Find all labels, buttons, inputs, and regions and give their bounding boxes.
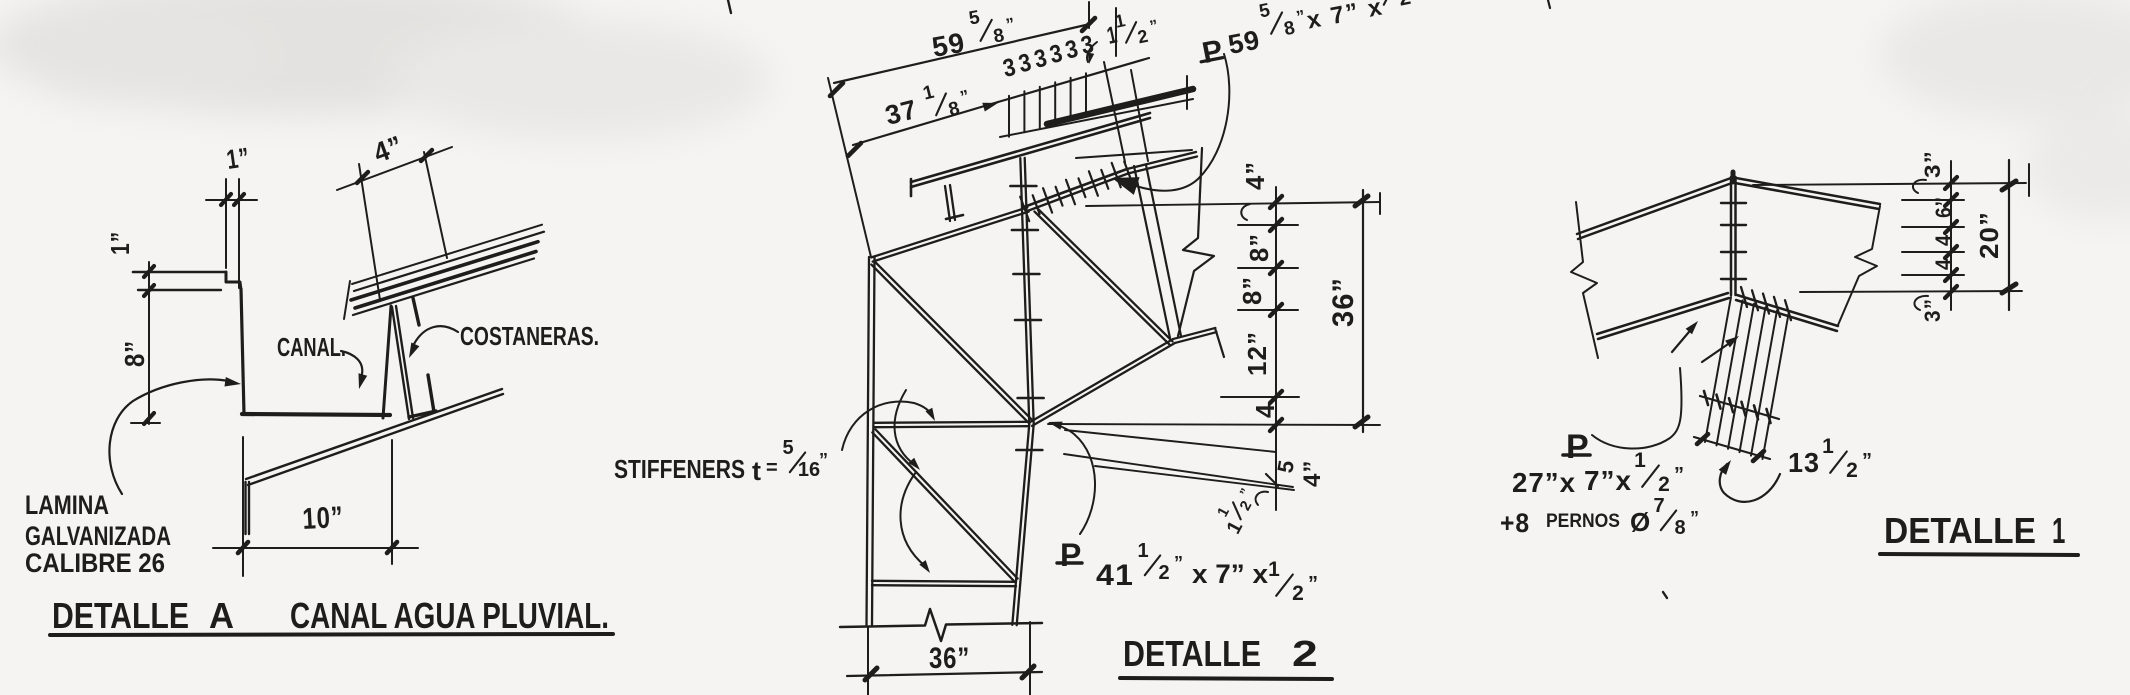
svg-text:8”: 8” (119, 340, 150, 367)
Detalle 2: rafter top flange thin line (1000, 99, 1193, 137)
Detalle A: lamina galvanizada diagonal sheet double line (246, 389, 502, 479)
svg-text:t: t (752, 456, 762, 486)
Detalle 1: apex splice plate double line (1730, 177, 1733, 295)
Detalle 2: splice bolt ticks (1020, 162, 1131, 222)
svg-text:1”: 1” (105, 231, 135, 255)
Detalle A: canal bottom (242, 414, 390, 415)
svg-text:36”: 36” (929, 642, 970, 675)
Detalle 1: apex splice bolt ticks (1721, 203, 1746, 279)
Detalle A: top 1 inch dim extension lines (225, 179, 227, 268)
svg-text:=: = (766, 457, 779, 479)
Detalle 2: leader arc from 41-1/2 callout to center member (1052, 423, 1095, 534)
Detalle 2: solid arrowhead pointing at splice (1112, 177, 1140, 195)
Detalle 1: double arrow leader to splice plate (1672, 326, 1694, 352)
Detalle 2: stiffener leader arc to mid strut (842, 402, 933, 450)
svg-text:1: 1 (2052, 510, 2066, 551)
svg-text:1”: 1” (225, 142, 252, 175)
svg-text:4: 4 (1931, 234, 1956, 246)
svg-text:4”: 4” (1240, 161, 1270, 190)
svg-text:A: A (209, 595, 234, 636)
small tick at top edge right (1548, 0, 1550, 8)
Detalle 1: bottom leader line to dim stack (1800, 291, 2022, 292)
Detalle A: costanera bottom flange (409, 411, 436, 417)
svg-text:”: ” (1674, 464, 1684, 486)
Detalle A: title underline (50, 634, 613, 635)
Detalle 1: bolt row cross tick line (1700, 396, 1779, 419)
Detalle 2: joint center member upper (web stiffener) (1020, 158, 1029, 424)
svg-text:2: 2 (1658, 473, 1670, 496)
Detalle 2: 37-1/8 dim line (853, 102, 998, 145)
Detalle 2: subdivision tick rows (1221, 225, 1299, 397)
svg-text:DETALLE: DETALLE (1123, 633, 1261, 674)
Detalle 2: six 3-inch spacing ticks (1009, 73, 1086, 137)
Detalle 2: rotated label 1 1/2 inch lower (1209, 481, 1263, 538)
svg-text:PERNOS: PERNOS (1546, 511, 1620, 532)
Detalle 2: small hook arrow at 1-1/2 (1087, 42, 1097, 62)
svg-text:8: 8 (1674, 517, 1685, 539)
Detalle A: 10 inch dim line with ticks (213, 547, 418, 549)
Detalle A: 4 inch dim line on roof slope (337, 147, 452, 190)
Detalle 2: lower panel diagonal (872, 433, 1014, 582)
svg-text:CANAL.: CANAL. (277, 332, 346, 362)
svg-text:COSTANERAS.: COSTANERAS. (460, 321, 599, 351)
svg-text:+8: +8 (1500, 508, 1530, 538)
Detalle 1: apex splice top blob (1731, 172, 1736, 182)
Detalle 2: seat flange lower edge line (1076, 150, 1192, 158)
Detalle 2: subdivision dim line vertical (1275, 187, 1277, 510)
svg-text:4”: 4” (1299, 460, 1326, 487)
Detalle 2: seat flange double line (T piece) (911, 113, 1150, 182)
Detalle 2: upper panel diagonal (871, 265, 1029, 424)
Detalle 2: 36 inch dim extension lines (867, 627, 869, 695)
svg-text:12”: 12” (1242, 331, 1272, 376)
Detalle 2: plate callout text 59 5/8 x 7 x 1/2 (1190, 0, 1431, 71)
svg-text:59: 59 (930, 27, 968, 63)
Detalle 2: rafter panel diagonal (1035, 212, 1170, 345)
svg-text:GALVANIZADA: GALVANIZADA (25, 521, 171, 551)
svg-text:8”: 8” (1237, 276, 1267, 305)
Detalle A: canal top lip upper line (133, 271, 226, 274)
Detalle 1: left beam top flange double line (1577, 178, 1731, 234)
Detalle 1: leader arc from PL callout (1592, 368, 1682, 449)
Detalle 2: rafter right cut line with break zigzag (1178, 148, 1214, 336)
Detalle 2: rafter bottom chord right stub and end tick (1175, 332, 1217, 343)
svg-text:7”x: 7”x (1584, 465, 1632, 496)
svg-text:2: 2 (1846, 459, 1858, 482)
Detalle 2: lower horizontal strut (872, 585, 1016, 586)
Detalle 2: joint center member lower (column right chord) (1012, 424, 1029, 625)
svg-text:DETALLE: DETALLE (1884, 510, 2036, 551)
svg-text:Ø: Ø (1630, 507, 1651, 537)
Detalle A: leader arrow from CANAL label (341, 351, 362, 374)
Detalle 2: spacing tick line (6 at 3 inch) (998, 58, 1149, 102)
svg-text:”: ” (1174, 553, 1183, 573)
Detalle 2: stiffener leader arc to upper diagonal (895, 390, 915, 465)
Detalle 2: web stub under seat flange (945, 186, 950, 221)
Detalle 2: labels 333333 (1000, 30, 1097, 83)
Detalle A: costanera web double line (392, 307, 409, 419)
svg-text:59: 59 (1226, 24, 1263, 60)
svg-text:2: 2 (1292, 582, 1304, 605)
svg-text:1: 1 (1822, 435, 1834, 458)
Detalle 1: tick blobs on subdivision line (1945, 177, 1957, 298)
Detalle 2: stiffener tick marks on center member (1010, 186, 1043, 450)
Detalle 1: curved arrow from 13-1/2 to bolt group (1720, 464, 1780, 502)
Detalle 2: 36 inch overall dim line right (1362, 190, 1364, 432)
Detalle 1: top leader line from apex to dim stack (1753, 183, 2026, 185)
svg-text:7: 7 (1653, 495, 1664, 517)
Detalle 2: column top chord to joint (873, 212, 1029, 262)
Detalle 2: stiffener leader arc to lower strut (900, 472, 925, 566)
svg-text:2: 2 (1158, 562, 1169, 584)
svg-text:”: ” (819, 450, 828, 470)
Detalle A: canal left wall (241, 289, 244, 414)
svg-text:”: ” (1690, 508, 1699, 528)
Detalle A: lamina left end vertical hem (244, 482, 246, 534)
svg-text:16: 16 (798, 459, 820, 481)
svg-text:4: 4 (1931, 258, 1956, 270)
svg-text:20”: 20” (1974, 211, 2004, 259)
svg-text:DETALLE: DETALLE (52, 595, 189, 636)
Detalle 2: small tick at top edge (728, 0, 731, 13)
Detalle 2: top plate right end extension (1186, 76, 1188, 109)
svg-text:3”: 3” (1920, 298, 1945, 322)
svg-text:10”: 10” (302, 501, 345, 536)
Detalle 2: extension line pair near 1-1/2 dim (1104, 62, 1125, 162)
Detalle 1: left beam bottom flange double line (1597, 293, 1728, 334)
Detalle 1: right beam bottom flange double line (1737, 295, 1838, 326)
scan shading smudge top-left (0, 0, 770, 140)
Detalle A: left dim ticks (144, 266, 154, 277)
svg-text:”: ” (1308, 573, 1318, 595)
Detalle 1: bolt hatch ticks on right bottom flange (1741, 287, 1791, 320)
svg-text:CANAL AGUA PLUVIAL.: CANAL AGUA PLUVIAL. (290, 595, 609, 636)
Detalle 2: 59-5/8 dim line with end ticks (834, 24, 1090, 83)
svg-text:1: 1 (1634, 449, 1646, 472)
Detalle 2: tick blobs on subdivision line (1270, 196, 1282, 431)
Detalle 1: bolt row lines below splice (1705, 297, 1789, 459)
Detalle 2: lower flange leader double line (1064, 454, 1293, 487)
Detalle 1: curl hook on bottom leader (1914, 296, 1928, 310)
svg-text:1: 1 (1137, 540, 1148, 562)
Detalle 2: leader arc from plate callout to splice (1136, 54, 1229, 191)
Detalle A: canal lip step (226, 272, 241, 290)
Detalle 2: top plate thick line (1047, 89, 1193, 124)
Detalle A: costanera top flange stub (413, 298, 419, 325)
Detalle 2: seat flange left end cap (910, 179, 913, 196)
svg-text:13: 13 (1788, 447, 1820, 478)
Detalle 2: rafter bottom chord (1032, 343, 1175, 426)
Detalle 2: column left chord double line (867, 257, 870, 625)
Detalle 2: title underline (1120, 678, 1332, 679)
Detalle 2: small tick and curl at lower labels (1266, 474, 1278, 486)
Detalle A: costanera bottom lip stub (428, 375, 434, 412)
Detalle 2: rafter end vertical member double line (1134, 166, 1170, 338)
Detalle 1: bolt ticks on cross line (1704, 391, 1771, 423)
svg-text:P: P (1060, 537, 1082, 573)
Detalle 1: 20 inch dim line (2008, 160, 2010, 310)
svg-text:5: 5 (782, 437, 793, 459)
svg-text:P: P (1566, 428, 1590, 466)
Detalle 2: curl hook near top 4 label (1241, 204, 1250, 220)
svg-text:CALIBRE 26: CALIBRE 26 (25, 548, 165, 578)
Detalle 1: subdivision tick rows (1902, 200, 1964, 275)
svg-text:6”: 6” (1931, 196, 1956, 218)
Detalle 1: title underline (1880, 554, 2078, 555)
Detalle 2: column bottom break line with zigzag (840, 609, 1042, 641)
Detalle A: canal lip lower extension line (138, 289, 221, 291)
Detalle A: canal right wall (383, 306, 391, 418)
svg-text:LAMINA: LAMINA (25, 490, 109, 520)
svg-text:2: 2 (1292, 633, 1319, 674)
Detalle A: left dim extension vertical line (148, 262, 150, 424)
scan shading smudge top-right (1880, 0, 2130, 220)
Detalle 2: left dim extension line (828, 78, 871, 257)
Detalle 1: curl hook on top leader (1913, 180, 1926, 193)
Detalle A: 10 inch dim extension lines (242, 437, 244, 576)
Detalle 2: mid horizontal strut (874, 426, 1029, 427)
Detalle 1: subdivision dim line (1950, 161, 1952, 310)
Detalle A: leader arrow from COSTANERAS label (414, 326, 458, 344)
svg-text:4: 4 (1250, 403, 1280, 418)
svg-text:3”: 3” (1920, 150, 1945, 178)
svg-text:”: ” (1862, 450, 1872, 472)
Detalle A: top 1 inch dim crossbar with ticks (206, 199, 257, 201)
Detalle 2: 36 inch dim line with ticks (847, 672, 1042, 676)
Detalle 1: left beam break cut line (1571, 202, 1598, 358)
Detalle 2: horizontal leader from knee node to dim stack (1048, 424, 1380, 425)
Detalle 1: 13-1/2 dim line with ticks (1694, 437, 1770, 459)
stray pen mark (1663, 592, 1667, 598)
svg-text:27”x: 27”x (1512, 467, 1576, 498)
svg-text:8”: 8” (1244, 233, 1274, 262)
svg-text:36”: 36” (1327, 277, 1360, 327)
svg-text:41: 41 (1096, 559, 1134, 592)
svg-text:STIFFENERS: STIFFENERS (614, 454, 745, 484)
Detalle 1: right beam top flange double line (1736, 178, 1880, 204)
Detalle 1: right beam break cut line (1838, 206, 1880, 325)
Detalle A: roof sheeting lines (344, 225, 544, 319)
Detalle A: 8 inch dim bottom crossbar (131, 422, 160, 424)
svg-text:1: 1 (1268, 558, 1280, 581)
svg-text:x 7” x: x 7” x (1192, 559, 1268, 589)
Detalle 2: bolted splice flange line (1024, 169, 1127, 207)
Detalle A: leader arc from LAMINA label to canal wall (109, 379, 228, 494)
Detalle 2: lower flange leader line 1 (1065, 430, 1276, 452)
Detalle 2: horizontal leader from splice to dim stack (1086, 202, 1380, 206)
Detalle A: 4 inch dim extension lines (359, 164, 380, 300)
Detalle 2: right dim extension short lines (1088, 2, 1090, 28)
